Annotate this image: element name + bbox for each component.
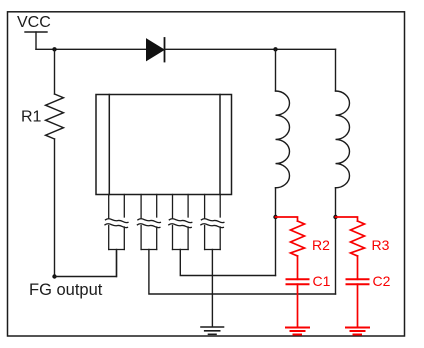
wire pin 2 to L2 bottom — [149, 250, 336, 295]
wire R2 to C1 — [297, 256, 299, 279]
svg-text:FG output: FG output — [29, 281, 103, 299]
wire C1 to ground — [297, 284, 299, 327]
pin 2 of U1 — [137, 195, 160, 250]
node FG output junction — [52, 274, 56, 278]
svg-text:VCC: VCC — [17, 14, 51, 31]
svg-text:C1: C1 — [313, 273, 331, 289]
wire pin 4 to ground — [211, 250, 213, 327]
node L2 R3 junction — [333, 215, 337, 219]
wire R1 to FG node — [54, 139, 56, 277]
svg-text:R1: R1 — [21, 109, 42, 126]
wire pin 3 to L1 bottom — [180, 250, 275, 276]
resistor R3 — [351, 221, 365, 256]
wire node to R2 — [276, 217, 298, 221]
capacitor C2 — [347, 279, 369, 284]
IC U1 package body — [96, 95, 232, 195]
inductor L2 — [336, 49, 350, 294]
pin 4 of U1 — [201, 195, 224, 250]
wire diode cathode to inductor L2 top — [165, 48, 336, 50]
node L1 R2 junction — [273, 215, 277, 219]
wire node to R3 — [336, 217, 358, 221]
ground GND1 — [201, 327, 224, 334]
diode D1 — [147, 38, 165, 62]
wire C2 to ground — [357, 284, 359, 327]
ground GND3 red — [346, 328, 369, 335]
capacitor C1 — [287, 279, 309, 284]
svg-text:C2: C2 — [373, 273, 391, 289]
node junction R1 branch — [52, 47, 56, 51]
wire top node to R1 — [54, 49, 56, 94]
ground GND2 red — [286, 328, 309, 335]
svg-text:R2: R2 — [312, 237, 330, 253]
inductor L1 — [276, 49, 290, 275]
wire R3 to C2 — [357, 256, 359, 279]
pin 3 of U1 — [169, 195, 192, 250]
VCC power rail symbol — [25, 32, 47, 49]
wire VCC to diode anode — [36, 48, 147, 50]
resistor R2 — [291, 221, 305, 256]
resistor R1 — [46, 94, 64, 139]
node junction L1 branch — [273, 47, 277, 51]
wire FG node to pin 1 — [55, 251, 117, 277]
wire pin 1 stem — [116, 250, 118, 277]
svg-text:R3: R3 — [372, 237, 390, 253]
pin 1 of U1 — [105, 195, 128, 250]
